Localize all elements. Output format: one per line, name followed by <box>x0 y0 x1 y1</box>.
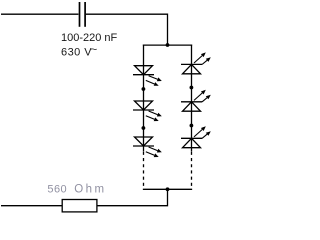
LED D6 (right string, cathode up) <box>181 138 202 147</box>
node left string junction 2 <box>142 126 146 130</box>
svg-text:~: ~ <box>91 44 97 56</box>
LED D3 (left string, cathode down) <box>133 137 154 146</box>
LED D3 light arrows <box>146 147 162 157</box>
LED D1 light arrows <box>146 76 162 86</box>
LED D1 (left string, cathode down) <box>133 66 154 75</box>
svg-text:630 V: 630 V <box>61 47 92 59</box>
wire right string <box>191 45 193 152</box>
wire left string <box>143 45 145 152</box>
LED D2 light arrows <box>146 111 162 121</box>
wire top bus <box>143 44 192 46</box>
wire left string dashed continuation <box>143 152 145 189</box>
LED D6 light arrows <box>194 126 211 138</box>
node right string junction 2 <box>190 124 194 128</box>
node junction top <box>166 43 170 47</box>
node left string junction 1 <box>142 87 146 91</box>
node junction bottom <box>166 187 170 191</box>
LED D2 (left string, cathode down) <box>133 101 154 110</box>
svg-text:100-220 nF: 100-220 nF <box>61 32 118 44</box>
resistor R body <box>62 200 97 212</box>
wire capacitor to feed corner <box>86 14 168 45</box>
LED D4 light arrows <box>194 52 211 64</box>
svg-text:560: 560 <box>47 184 67 196</box>
LED D5 (right string, cathode up) <box>181 102 202 111</box>
wire bus stub to bottom rail <box>97 189 168 205</box>
node right string junction 1 <box>190 86 194 90</box>
wire resistor to left edge <box>1 205 62 207</box>
wire right string dashed continuation <box>191 152 193 189</box>
wire top input rail <box>1 13 78 15</box>
LED D4 (right string, cathode up) <box>181 64 202 73</box>
wire bottom bus <box>143 188 192 190</box>
capacitor C plate left <box>79 2 81 27</box>
capacitor C plate right <box>84 2 86 27</box>
LED D5 light arrows <box>194 90 211 102</box>
svg-text:Ohm: Ohm <box>74 184 106 196</box>
